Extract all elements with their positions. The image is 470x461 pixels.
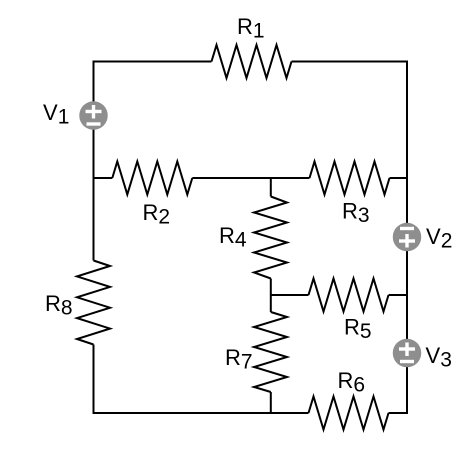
wire: bottom rail right segment [389,412,408,414]
wire: top rail left segment [94,61,212,63]
svg-text:R6: R6 [338,368,366,397]
resistor R5 [309,279,389,312]
svg-text:R8: R8 [45,291,73,320]
wire: center branch from middle row node to R4 [270,178,272,197]
resistor R6 [309,397,389,430]
resistor R1 [212,45,292,78]
voltage source V1 (+ top, - bottom) [79,101,108,130]
svg-text:V2: V2 [426,224,452,253]
svg-text:R3: R3 [342,199,370,228]
voltage source V3 (+ top, - bottom) [393,339,422,368]
wire: R5 row stub from center branch [271,294,309,296]
svg-text:V1: V1 [43,100,69,129]
wire: middle row stub from R3 to right rail [390,177,408,179]
wire: bottom rail left segment [94,412,309,414]
wire: top rail right segment [292,61,408,63]
wire: R5 row stub to right rail [389,294,408,296]
resistor R7 [254,312,287,392]
resistor R4 [254,197,287,279]
resistor R8 [77,261,110,345]
wire: left rail upper (through V1 to R8 top) [93,61,95,261]
wire: right rail [406,61,408,415]
svg-text:V3: V3 [426,343,452,372]
svg-text:R1: R1 [237,14,265,43]
resistor R2 [112,162,192,195]
wire: center branch between R4 and R7 [270,279,272,313]
wire: middle row between R2 and R3 [192,177,309,179]
svg-text:R5: R5 [344,315,372,344]
svg-text:R2: R2 [143,200,171,229]
wire: left rail lower (R8 bottom to bottom rail) [93,345,95,415]
voltage source V2 (- top, + bottom) [393,223,422,252]
wire: center branch from R7 to bottom rail [270,392,272,414]
resistor R3 [310,162,390,195]
wire: middle row stub from left rail to R2 [94,177,113,179]
svg-text:R4: R4 [219,223,247,252]
svg-text:R7: R7 [225,345,253,374]
